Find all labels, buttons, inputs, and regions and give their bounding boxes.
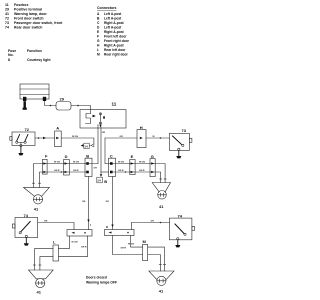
svg-text:D: D [97, 26, 100, 30]
wire C to rear-right GR [106, 177, 114, 230]
svg-text:14: 14 [84, 145, 88, 149]
svg-text:Courtesy light: Courtesy light [27, 58, 51, 62]
node B reference [97, 174, 108, 184]
svg-text:72: 72 [5, 17, 9, 21]
fusebox 11 [80, 102, 126, 129]
svg-text:GN R: GN R [118, 170, 124, 172]
svg-text:Passenger door switch, front: Passenger door switch, front [14, 21, 63, 25]
caption [86, 276, 117, 285]
svg-text:14: 14 [97, 179, 101, 183]
svg-text:G: G [97, 39, 100, 43]
wire 74R to connector K GR [131, 221, 169, 230]
svg-text:GR: GR [82, 201, 86, 203]
svg-text:Left A-post: Left A-post [104, 26, 122, 30]
svg-text:W GN: W GN [118, 162, 124, 164]
svg-text:H: H [140, 125, 143, 130]
component list [5, 3, 63, 30]
svg-text:GR: GR [151, 221, 155, 223]
svg-text:41: 41 [159, 289, 164, 294]
wire I to L GR-R [59, 236, 88, 257]
svg-text:OR: OR [102, 132, 106, 134]
svg-text:72: 72 [25, 127, 30, 132]
warning lamp 41 rear-left [29, 270, 54, 295]
ground (switch 72) [18, 147, 23, 156]
svg-text:K: K [106, 225, 109, 229]
svg-text:Rear right door: Rear right door [104, 53, 129, 57]
svg-text:W GN: W GN [73, 162, 79, 164]
svg-text:8: 8 [103, 116, 105, 120]
connector C [109, 153, 116, 176]
svg-text:C: C [110, 153, 113, 158]
connectors list [97, 6, 130, 57]
wire K to M GR-R [113, 236, 143, 255]
svg-text:I: I [90, 223, 91, 227]
svg-text:73: 73 [182, 128, 187, 133]
svg-text:E: E [97, 30, 100, 34]
wire bus to connector H GR [105, 136, 137, 138]
wire 74L to connector I GR [38, 221, 74, 230]
svg-text:Doors closed: Doors closed [86, 276, 107, 280]
wire K to M W-GN [128, 236, 143, 248]
wire 72 to connector A [35, 137, 55, 139]
connector I rear-left door [67, 223, 92, 236]
svg-text:L: L [53, 240, 56, 245]
wire front-left top W-GN [34, 162, 99, 188]
svg-text:C: C [97, 21, 100, 25]
connector A [55, 126, 62, 147]
svg-text:GR: GR [106, 201, 110, 203]
svg-text:Right A-post: Right A-post [104, 30, 125, 34]
svg-text:41: 41 [5, 12, 9, 16]
svg-text:Warning lamps OFF: Warning lamps OFF [86, 281, 117, 285]
wire M to rear-right lamp bottom [148, 255, 162, 272]
svg-text:W GN: W GN [139, 162, 145, 164]
svg-text:No.: No. [8, 53, 14, 57]
svg-text:Rear left door: Rear left door [104, 48, 126, 52]
svg-text:29: 29 [5, 8, 9, 12]
svg-text:E: E [131, 154, 134, 159]
svg-text:W GN: W GN [72, 136, 78, 138]
svg-text:74: 74 [5, 26, 9, 30]
svg-text:29: 29 [60, 97, 65, 102]
svg-text:G: G [151, 154, 154, 159]
svg-text:Front left door: Front left door [104, 35, 127, 39]
svg-text:73: 73 [5, 21, 9, 25]
warning lamp 41 front-left [24, 183, 50, 211]
svg-text:L: L [97, 48, 99, 52]
node bus junction [104, 138, 106, 164]
connector F [43, 154, 49, 175]
svg-text:Warning lamp, door: Warning lamp, door [14, 12, 47, 16]
connector G [150, 154, 155, 177]
connector D [64, 154, 70, 175]
svg-text:H: H [97, 44, 100, 48]
fuse table [8, 49, 51, 62]
svg-text:Left A-post: Left A-post [104, 12, 122, 16]
wire L to rear-left lamp top [33, 249, 53, 270]
svg-text:F: F [45, 154, 48, 159]
svg-text:Positive terminal: Positive terminal [14, 8, 42, 12]
svg-text:W GN: W GN [72, 242, 78, 244]
svg-text:Rear door switch: Rear door switch [14, 26, 42, 30]
svg-text:Right A-post: Right A-post [104, 21, 125, 25]
battery [20, 84, 49, 101]
svg-text:Function: Function [27, 49, 42, 53]
ground (switch 73) [176, 150, 181, 158]
svg-text:B: B [97, 17, 100, 21]
svg-text:OR: OR [94, 167, 98, 169]
svg-text:B: B [104, 179, 107, 184]
wire battery to 29 [45, 101, 57, 106]
svg-text:A: A [97, 12, 100, 16]
connector K rear-right door [105, 225, 135, 236]
wire 29 to fusebox [71, 105, 91, 114]
svg-text:W GN: W GN [128, 244, 134, 246]
warning lamp 41 rear-right [149, 271, 174, 294]
svg-text:41: 41 [37, 290, 42, 295]
ground (switch 74 left) [24, 238, 29, 246]
wire fuse output OR [94, 125, 109, 175]
svg-text:W GN: W GN [54, 162, 60, 164]
positive terminal 29 [56, 97, 71, 111]
wire H to 73 [146, 136, 169, 139]
svg-text:M: M [143, 239, 147, 244]
svg-text:A: A [56, 126, 59, 131]
connector L [53, 240, 59, 261]
connector B [85, 153, 92, 176]
wire L to rear-left lamp bottom [39, 257, 53, 270]
rear door switch 74 right [169, 213, 194, 239]
svg-text:GR R: GR R [121, 248, 127, 250]
svg-text:GR: GR [120, 136, 124, 138]
ground (battery) [23, 101, 27, 110]
connector M [143, 239, 148, 260]
warning lamp 41 front-right [152, 179, 170, 209]
ground (switch 74 right) [175, 240, 180, 248]
svg-text:8: 8 [8, 58, 10, 62]
svg-text:74: 74 [178, 213, 183, 218]
svg-text:D: D [65, 154, 68, 159]
reference marker 14 [81, 143, 94, 148]
svg-text:41: 41 [159, 204, 164, 209]
wire B to rear-left GR [82, 177, 90, 230]
wire front-right top W-GN [105, 162, 165, 183]
svg-text:Right A-post: Right A-post [104, 44, 125, 48]
svg-text:GN R: GN R [139, 170, 145, 172]
svg-text:Fusebox: Fusebox [14, 3, 28, 7]
svg-text:Connectors: Connectors [97, 6, 117, 10]
svg-text:11: 11 [112, 102, 117, 107]
svg-text:B: B [86, 153, 89, 158]
svg-text:Left A-post: Left A-post [104, 17, 122, 21]
wire A to reference W-GN [61, 136, 94, 144]
fuse 8 [86, 113, 106, 128]
svg-text:41: 41 [34, 206, 39, 211]
connector E [130, 154, 135, 175]
svg-text:GN R: GN R [73, 170, 79, 172]
svg-text:Front door switch: Front door switch [14, 17, 44, 21]
wire front-right bottom GN-R [112, 170, 161, 182]
svg-text:11: 11 [5, 3, 9, 7]
svg-text:Front right door: Front right door [104, 39, 130, 43]
connector H [137, 125, 146, 148]
svg-text:M: M [97, 53, 100, 57]
wire I to L W-GN [59, 236, 78, 249]
passenger door switch 73 [169, 128, 192, 150]
svg-text:GN R: GN R [54, 170, 60, 172]
front door switch 72 [10, 127, 35, 146]
rear door switch 74 left [12, 213, 37, 238]
svg-text:F: F [97, 35, 99, 39]
svg-text:GR R: GR R [81, 247, 87, 249]
wire M to rear-right lamp top [148, 247, 166, 271]
wire front-left bottom GN-R [40, 170, 89, 187]
svg-text:GR: GR [44, 221, 48, 223]
